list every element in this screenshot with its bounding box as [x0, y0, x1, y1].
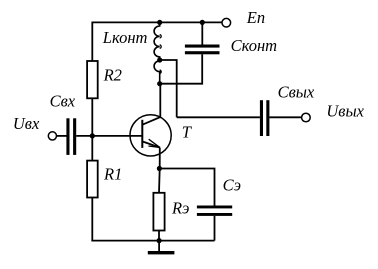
node dot tank bottom: [157, 81, 162, 86]
wire left column R2 top: [91, 22, 93, 62]
svg-text:Сконт: Сконт: [231, 36, 278, 55]
node dot emitter: [157, 166, 162, 171]
wire Rэ bottom to ground node: [158, 231, 160, 241]
wire emitter node to Rэ: [158, 169, 161, 193]
capacitor Cэ: [197, 206, 232, 216]
node dot top rail / Cконт: [200, 20, 205, 25]
wire tank bottom to Cконт bottom: [160, 54, 203, 83]
terminal Eп circle: [222, 18, 231, 27]
wire collector up to tank: [159, 84, 161, 118]
wire Cконт top to rail: [201, 22, 203, 44]
svg-text:Uвых: Uвых: [326, 102, 364, 121]
wire input terminal to Cвх: [57, 135, 67, 137]
svg-text:Lконт: Lконт: [102, 28, 148, 47]
wire Cэ bottom to bottom rail: [214, 216, 216, 241]
svg-text:Сэ: Сэ: [223, 176, 241, 195]
transistor T: [130, 115, 171, 156]
wire emitter node to Cэ column: [160, 169, 215, 206]
node dot top rail / inductor: [157, 20, 162, 25]
wire R1 bottom to bottom rail: [91, 198, 93, 241]
node dot base: [90, 133, 95, 138]
ground: [148, 241, 175, 255]
resistor R1: [87, 161, 98, 198]
inductor Lконт: [154, 22, 161, 83]
capacitor Cвх: [66, 118, 76, 155]
wire bottom rail: [91, 240, 214, 242]
resistor R2: [87, 61, 98, 98]
wire emitter down to node: [159, 148, 161, 169]
wire output line to Cвых: [177, 116, 260, 118]
wire R2 bottom to base node to R1 top: [91, 98, 93, 160]
svg-text:Свых: Свых: [278, 82, 315, 101]
terminal Uвых circle: [302, 113, 311, 122]
capacitor Cвых: [260, 100, 270, 136]
node dot ground: [157, 238, 162, 243]
svg-text:T: T: [182, 123, 193, 142]
svg-text:Uвх: Uвх: [13, 114, 40, 133]
resistor Rэ: [153, 193, 164, 231]
wire Cвх to base (node): [76, 135, 142, 137]
svg-text:Rэ: Rэ: [171, 199, 189, 218]
svg-text:Свх: Свх: [50, 92, 76, 111]
wire inductor tap to output column: [160, 60, 177, 117]
svg-text:Еп: Еп: [246, 8, 265, 27]
svg-text:R2: R2: [103, 66, 122, 85]
node dot inductor tap: [157, 57, 162, 62]
svg-text:R1: R1: [103, 165, 122, 184]
capacitor Cконт: [185, 45, 220, 55]
terminal Uвх input circle: [48, 132, 56, 140]
wire top supply rail: [92, 21, 222, 23]
wire Cвых to output terminal: [269, 116, 301, 118]
